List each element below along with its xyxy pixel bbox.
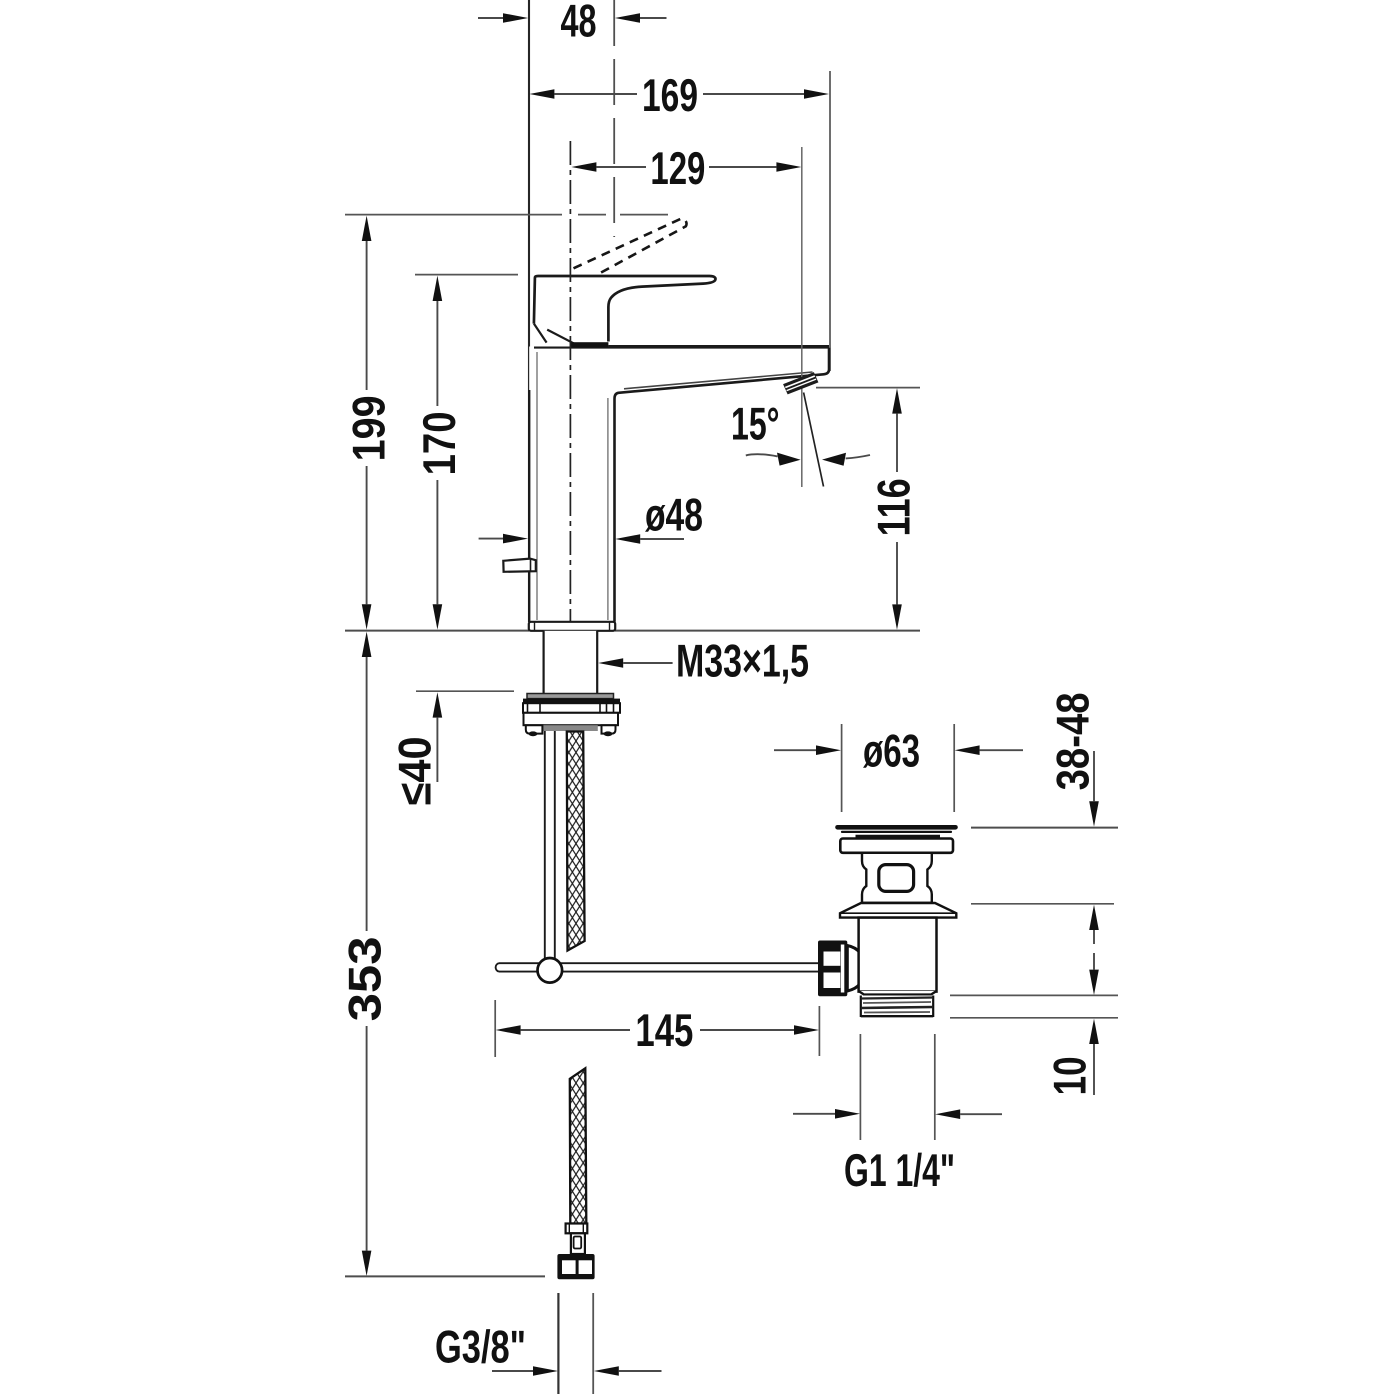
mounting nut (523, 699, 620, 737)
sink deck line y=630.6 (345, 630, 529, 632)
dimension G1 1/4" (793, 1034, 1002, 1196)
braided hose lower (570, 1068, 587, 1223)
handle raised position (dashed) (574, 219, 687, 275)
extension line left body edge x=529 (528, 0, 530, 622)
drain: dome joint (847, 946, 864, 992)
bottom baseline y=1276.4 (345, 1275, 545, 1277)
faucet handle (closed position) (534, 276, 716, 347)
svg-text:116: 116 (868, 478, 920, 536)
dimension 170 (413, 276, 465, 630)
svg-text:48: 48 (561, 0, 597, 47)
dimension o48 (479, 488, 703, 543)
dimension 129 (571, 142, 801, 194)
extension line 48-right x=614 (613, 0, 615, 237)
braided hose upper (567, 732, 585, 951)
svg-text:199: 199 (343, 395, 395, 461)
faucet body column and spout beam (529, 347, 829, 622)
drain: thread section G1 1/4 (861, 996, 933, 1018)
dimension 10 (1044, 1019, 1099, 1096)
extension line flange level y=903.8 (971, 903, 1114, 905)
side lever tab (503, 559, 536, 572)
base plate (529, 622, 615, 631)
svg-text:129: 129 (650, 142, 705, 194)
hose end nut G3/8 (557, 1254, 594, 1279)
mounting washer (527, 694, 614, 699)
dimension 353 (339, 632, 391, 1276)
drain: waist window (879, 865, 914, 892)
extension line handle-top level y=274.6 (415, 274, 518, 276)
svg-text:15°: 15° (731, 397, 780, 449)
svg-text:≤40: ≤40 (389, 736, 441, 805)
rod ball joint (538, 958, 563, 983)
drain: bottom edge (859, 991, 937, 995)
drain: plug top disc (838, 827, 956, 836)
extension line spout tip x=801.8 (801, 147, 803, 487)
15deg angle arrows (746, 453, 870, 466)
drain: coupling knurl nut (818, 941, 847, 997)
extension line thread-bottom level y=1017.8 (950, 1017, 1118, 1019)
extension line 169-right x=830 (829, 71, 831, 371)
svg-text:169: 169 (642, 69, 698, 121)
extension line raised-handle level y=214.6 (345, 214, 668, 216)
dimension 48 (478, 0, 667, 47)
dimension o63 (774, 724, 1023, 812)
svg-text:ø48: ø48 (645, 488, 703, 540)
horizontal pop-up lever rod (496, 963, 818, 971)
dimension flange-to-bottom (unlabeled) (1089, 905, 1099, 995)
dimension 169 (529, 69, 829, 121)
drain: lower flange (840, 903, 956, 918)
svg-text:170: 170 (413, 411, 465, 475)
dimension 38-48 (1047, 692, 1099, 826)
svg-text:10: 10 (1044, 1056, 1096, 1095)
svg-text:145: 145 (635, 1004, 693, 1056)
DIMENSION LAYER (339, 0, 1118, 1394)
centerline faucet axis (569, 141, 571, 731)
svg-text:353: 353 (339, 936, 391, 1021)
dimension <=40 (389, 691, 514, 805)
aerator (784, 373, 818, 394)
dimension 145 (495, 1000, 819, 1057)
BODY LAYER (496, 141, 957, 1279)
dimension 199 (343, 216, 395, 630)
svg-text:M33×1,5: M33×1,5 (676, 635, 809, 687)
dimension G3/8" (435, 1293, 662, 1394)
hose end collar (566, 1224, 588, 1234)
dimension M33x1,5 (598, 635, 809, 687)
extension line body-bottom level y=995.4 (950, 994, 1118, 996)
svg-text:ø63: ø63 (863, 724, 920, 776)
pop-up rod vertical (545, 731, 555, 958)
dimension 116 (816, 388, 920, 630)
svg-text:38-48: 38-48 (1047, 692, 1099, 790)
drain: lower body (859, 918, 937, 992)
svg-text:G1 1/4": G1 1/4" (844, 1144, 955, 1196)
threaded shank M33 (544, 631, 598, 694)
drain: flange rim (840, 839, 953, 853)
hose end neck (571, 1233, 585, 1254)
drain: waist body (862, 853, 932, 903)
svg-text:G3/8": G3/8" (435, 1320, 526, 1372)
water stream line 15deg (804, 393, 824, 487)
extension line drain deck y=827.6 (971, 827, 1118, 829)
